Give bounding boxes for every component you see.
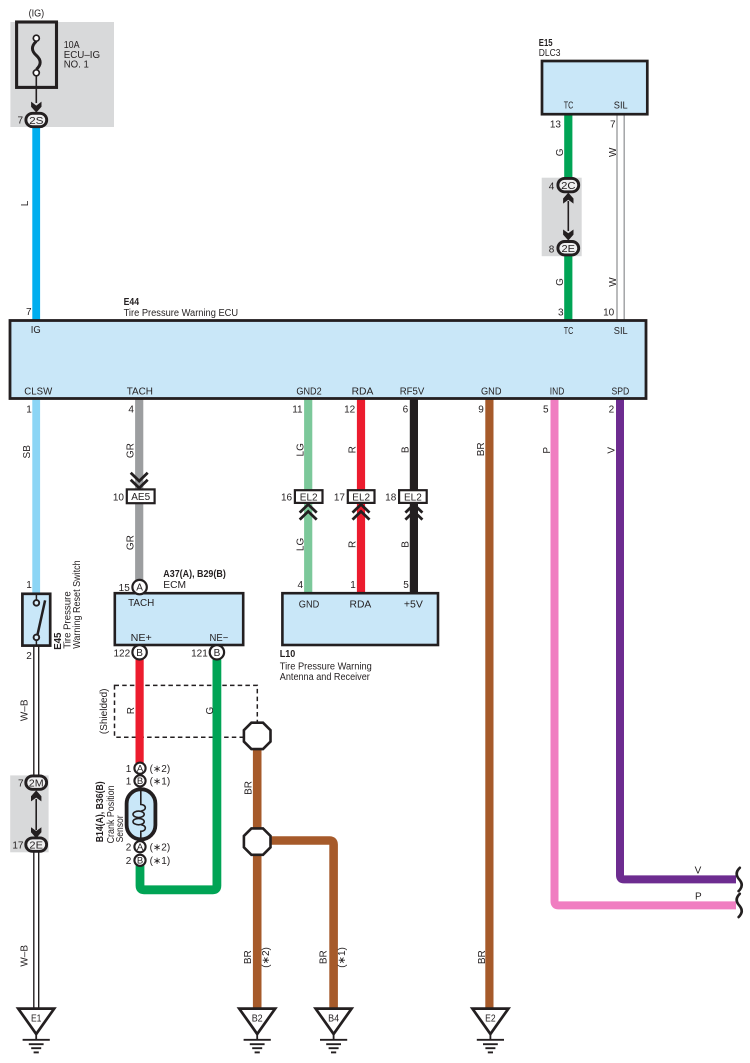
- svg-text:IND: IND: [550, 387, 565, 398]
- DLC3 connector E15: [542, 61, 647, 114]
- wire R crank sensor: [136, 660, 144, 764]
- wire BR GND to E2: [485, 398, 493, 1009]
- svg-text:B: B: [136, 648, 143, 659]
- svg-text:EL2: EL2: [404, 492, 422, 503]
- svg-text:11: 11: [292, 405, 303, 416]
- svg-text:8: 8: [549, 244, 555, 255]
- svg-text:EL2: EL2: [300, 492, 318, 503]
- svg-text:(∗1): (∗1): [337, 947, 348, 968]
- svg-text:B: B: [400, 446, 411, 453]
- wire GR lower: [135, 503, 143, 580]
- svg-text:(∗1): (∗1): [150, 856, 171, 867]
- wire W-B lower: [34, 852, 39, 1009]
- svg-text:2: 2: [126, 856, 132, 867]
- svg-text:SB: SB: [22, 445, 33, 459]
- svg-text:1: 1: [126, 777, 132, 788]
- svg-text:B: B: [137, 776, 143, 787]
- svg-text:B2: B2: [252, 1013, 263, 1024]
- svg-text:G: G: [555, 278, 566, 286]
- wire R RDA upper: [357, 398, 365, 490]
- connector 2C/2E gray background: [542, 178, 582, 257]
- svg-text:BR: BR: [476, 442, 487, 456]
- svg-text:+5V: +5V: [404, 600, 423, 611]
- svg-text:R: R: [348, 446, 359, 453]
- svg-text:(∗2): (∗2): [150, 842, 171, 853]
- svg-text:122: 122: [114, 649, 131, 660]
- svg-text:1: 1: [26, 405, 32, 416]
- svg-text:EL2: EL2: [352, 492, 370, 503]
- continuation squiggle P: [737, 894, 742, 917]
- crank position sensor B14: [127, 789, 156, 839]
- chevron arrows into EL2 pin16: [300, 504, 317, 519]
- svg-text:5: 5: [543, 405, 549, 416]
- svg-text:W–B: W–B: [20, 699, 31, 721]
- pin 122 circle B: [132, 645, 146, 659]
- wire W-B upper: [34, 646, 39, 777]
- svg-text:NE+: NE+: [131, 633, 152, 644]
- wire BR branch to B4 ground: [263, 841, 334, 1009]
- svg-text:4: 4: [297, 580, 303, 591]
- wire BR to B2 ground: [253, 853, 262, 1009]
- pin 2A crank: [134, 841, 145, 852]
- svg-text:2: 2: [609, 405, 615, 416]
- wire B RF5V lower: [410, 503, 418, 593]
- svg-text:P: P: [695, 891, 702, 902]
- svg-text:LG: LG: [295, 443, 306, 457]
- svg-text:RF5V: RF5V: [400, 387, 425, 398]
- svg-text:2: 2: [126, 842, 132, 853]
- svg-text:6: 6: [403, 405, 409, 416]
- connector 2E right: [549, 242, 579, 256]
- ground B4: [316, 1009, 352, 1053]
- svg-text:Antenna and Receiver: Antenna and Receiver: [280, 672, 371, 683]
- svg-text:Sensor: Sensor: [115, 815, 126, 843]
- ground E1: [18, 1009, 54, 1053]
- svg-text:SIL: SIL: [614, 101, 628, 112]
- svg-text:BR: BR: [477, 950, 488, 964]
- svg-text:15: 15: [119, 583, 131, 594]
- svg-text:B4: B4: [328, 1013, 339, 1024]
- svg-text:10: 10: [113, 493, 125, 504]
- svg-text:DLC3: DLC3: [539, 48, 561, 59]
- wire GR upper: [135, 398, 143, 489]
- arrow from fuse to 2S: [35, 76, 37, 103]
- svg-text:Warning Reset Switch: Warning Reset Switch: [72, 560, 83, 649]
- svg-text:7: 7: [17, 116, 23, 127]
- wire W SIL: [617, 113, 624, 321]
- svg-text:A: A: [137, 842, 144, 853]
- pin 1B crank: [134, 775, 145, 786]
- svg-text:RDA: RDA: [350, 600, 372, 611]
- svg-text:L: L: [20, 200, 31, 206]
- svg-text:A37(A), B29(B): A37(A), B29(B): [163, 569, 226, 580]
- svg-text:1: 1: [26, 580, 32, 591]
- svg-text:R: R: [348, 541, 359, 548]
- chevron arrows into EL2 pin18: [405, 504, 422, 519]
- svg-text:V: V: [606, 447, 617, 454]
- wire SB: [32, 398, 40, 594]
- svg-text:ECM: ECM: [163, 580, 186, 591]
- svg-text:TACH: TACH: [128, 598, 154, 609]
- svg-text:(Shielded): (Shielded): [99, 689, 110, 735]
- svg-text:NE−: NE−: [210, 633, 229, 644]
- svg-text:5: 5: [403, 580, 409, 591]
- svg-text:R: R: [126, 707, 137, 714]
- pin 15 circle A: [132, 580, 146, 594]
- connector 2M/2E gray background: [10, 775, 48, 852]
- svg-text:G: G: [555, 148, 566, 156]
- svg-text:G: G: [205, 706, 216, 714]
- svg-text:(∗2): (∗2): [150, 764, 171, 775]
- ECU E44: [10, 321, 646, 399]
- svg-text:B14(A), B36(B): B14(A), B36(B): [95, 781, 106, 842]
- connector EL2 pin18: [399, 490, 427, 503]
- junction octagon 1 shield drain: [244, 723, 271, 749]
- chevron arrows into AE5: [131, 473, 148, 488]
- svg-text:2M: 2M: [29, 779, 44, 790]
- svg-text:2C: 2C: [561, 181, 575, 192]
- svg-text:(IG): (IG): [29, 8, 45, 19]
- svg-text:IG: IG: [31, 325, 41, 336]
- svg-text:LG: LG: [295, 538, 306, 552]
- svg-text:4: 4: [128, 405, 134, 416]
- arrow pair 2M to 2E: [31, 790, 41, 838]
- connector 2E left: [12, 838, 46, 852]
- svg-text:B: B: [400, 541, 411, 548]
- svg-text:V: V: [695, 865, 702, 876]
- reset switch E45: [22, 594, 50, 646]
- svg-text:RDA: RDA: [352, 387, 374, 398]
- svg-text:16: 16: [281, 493, 293, 504]
- svg-text:W: W: [608, 277, 619, 287]
- pin 121 circle B: [210, 645, 224, 659]
- svg-text:GR: GR: [125, 535, 136, 550]
- svg-text:W–B: W–B: [20, 945, 31, 967]
- svg-text:4: 4: [549, 181, 555, 192]
- svg-text:A: A: [136, 583, 143, 594]
- svg-text:CLSW: CLSW: [24, 387, 52, 398]
- wire G crank sensor: [140, 660, 217, 890]
- svg-text:BR: BR: [243, 781, 254, 795]
- svg-text:AE5: AE5: [131, 492, 150, 503]
- connector EL2 pin17: [348, 490, 375, 503]
- svg-text:TACH: TACH: [127, 387, 153, 398]
- wire V SPD: [620, 398, 736, 879]
- junction octagon 2 brown splice: [244, 828, 271, 854]
- wire G TC lower: [564, 255, 572, 321]
- svg-text:B: B: [214, 648, 221, 659]
- svg-text:BR: BR: [243, 950, 254, 964]
- svg-text:(∗1): (∗1): [150, 777, 171, 788]
- wire BR between octagons: [253, 748, 262, 830]
- svg-text:17: 17: [334, 493, 346, 504]
- connector 2C: [549, 178, 579, 192]
- svg-text:3: 3: [558, 308, 564, 319]
- svg-text:13: 13: [550, 120, 562, 131]
- svg-text:1: 1: [126, 764, 132, 775]
- svg-text:2E: 2E: [562, 244, 576, 255]
- connector 2S: [26, 113, 47, 126]
- svg-text:GND: GND: [481, 387, 502, 398]
- svg-text:TC: TC: [564, 101, 574, 112]
- svg-text:2: 2: [26, 651, 32, 662]
- connector AE5: [127, 489, 155, 503]
- svg-text:2S: 2S: [29, 116, 44, 127]
- svg-text:L10: L10: [280, 649, 296, 660]
- svg-text:E2: E2: [485, 1013, 496, 1024]
- svg-text:W: W: [608, 147, 619, 157]
- wire B RF5V upper: [410, 398, 418, 490]
- connector EL2 pin16: [295, 490, 323, 503]
- antenna receiver L10 box: [282, 593, 438, 645]
- wire LG lower: [304, 503, 312, 593]
- ground B2: [239, 1009, 275, 1053]
- svg-text:121: 121: [191, 649, 208, 660]
- svg-text:SIL: SIL: [614, 326, 628, 337]
- svg-text:A: A: [137, 764, 144, 775]
- svg-text:9: 9: [478, 405, 484, 416]
- wire L ignition: [32, 126, 40, 321]
- svg-text:P: P: [542, 447, 553, 454]
- svg-text:7: 7: [610, 120, 616, 131]
- svg-text:E44: E44: [124, 297, 140, 308]
- svg-text:SPD: SPD: [612, 387, 630, 398]
- svg-text:E1: E1: [31, 1013, 42, 1024]
- connector 2M: [18, 776, 47, 790]
- ECM box: [115, 593, 243, 645]
- svg-text:7: 7: [18, 778, 24, 789]
- svg-text:7: 7: [26, 307, 32, 318]
- fuse block gray background: [10, 22, 114, 127]
- svg-text:17: 17: [12, 841, 24, 852]
- svg-text:12: 12: [344, 405, 356, 416]
- wire LG upper: [304, 398, 312, 490]
- chevron arrows into EL2 pin17: [353, 504, 370, 519]
- shield dashed box: [115, 685, 258, 737]
- fuse ECU-IG NO.1: [17, 22, 57, 87]
- svg-text:GND: GND: [299, 600, 320, 611]
- svg-text:1: 1: [350, 580, 356, 591]
- svg-text:GR: GR: [125, 443, 136, 458]
- pin 1A crank: [134, 763, 145, 774]
- svg-text:(∗2): (∗2): [261, 947, 272, 968]
- svg-text:18: 18: [385, 493, 397, 504]
- wire P IND: [555, 398, 737, 905]
- wire R RDA lower: [357, 503, 365, 593]
- svg-text:B: B: [137, 856, 143, 867]
- svg-text:BR: BR: [318, 950, 329, 964]
- svg-text:NO. 1: NO. 1: [64, 60, 90, 71]
- ground E2: [472, 1009, 508, 1053]
- continuation squiggle V: [737, 868, 742, 891]
- svg-text:10: 10: [603, 308, 615, 319]
- svg-text:2E: 2E: [29, 841, 43, 852]
- pin 2B crank: [134, 855, 145, 866]
- svg-text:Tire Pressure Warning ECU: Tire Pressure Warning ECU: [124, 308, 239, 319]
- wire G TC upper: [564, 113, 572, 179]
- svg-text:TC: TC: [564, 326, 574, 337]
- svg-text:GND2: GND2: [296, 387, 322, 398]
- arrow pair 2C to 2E: [563, 193, 573, 241]
